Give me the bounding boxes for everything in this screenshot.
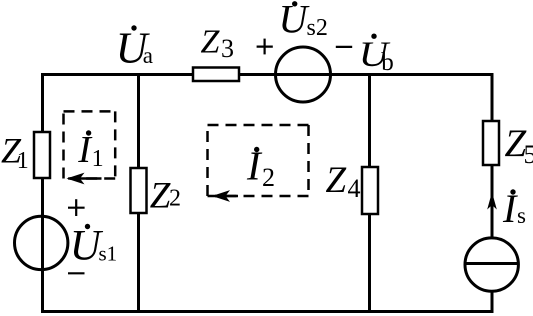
svg-text:2: 2 [262, 163, 275, 192]
svg-text:5: 5 [524, 140, 533, 169]
svg-text:4: 4 [348, 174, 361, 203]
svg-text:1: 1 [17, 148, 29, 174]
svg-text:I: I [502, 186, 518, 231]
svg-text:Z: Z [326, 160, 347, 201]
svg-text:b: b [381, 49, 394, 76]
svg-text:I: I [246, 142, 263, 188]
svg-text:2: 2 [169, 186, 181, 212]
svg-text:3: 3 [221, 34, 234, 63]
svg-text:Z: Z [150, 175, 171, 216]
svg-text:Z: Z [201, 23, 221, 60]
svg-text:a: a [143, 43, 153, 68]
svg-text:1: 1 [92, 146, 104, 172]
svg-text:s2: s2 [307, 15, 328, 41]
svg-text:s1: s1 [99, 242, 118, 266]
svg-text:s: s [517, 203, 526, 228]
